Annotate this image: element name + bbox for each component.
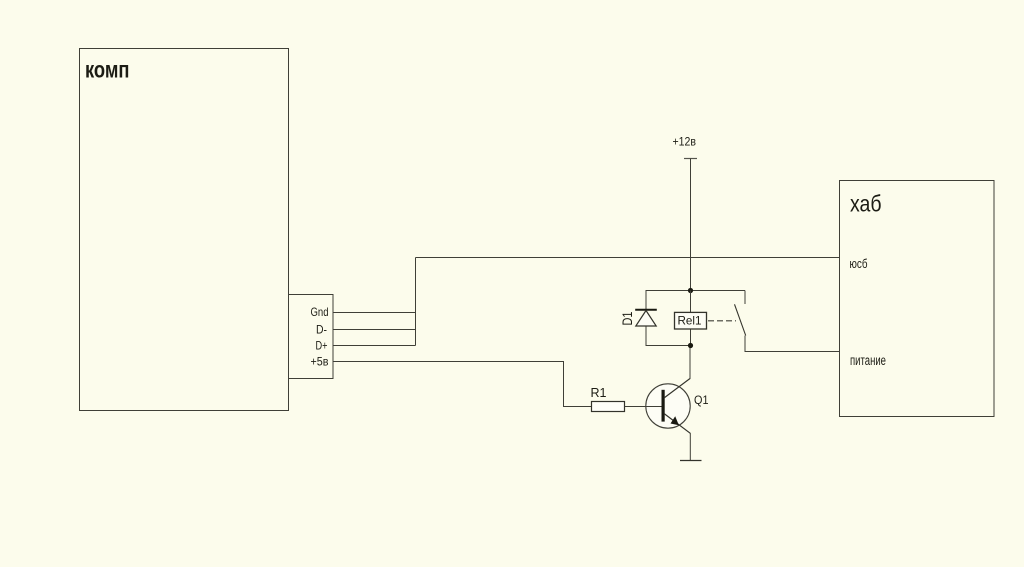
ground (680, 460, 702, 462)
svg-text:R1: R1 (591, 386, 607, 400)
+12v supply terminal (673, 135, 698, 159)
wire relay coil (node A to node B through Rel1) (690, 291, 692, 346)
node B junction (688, 343, 693, 348)
switch contact top terminal (744, 291, 746, 305)
svg-text:питание: питание (850, 353, 886, 368)
svg-text:хаб: хаб (850, 191, 882, 217)
wire node A rail (diode top to switch top) (646, 290, 746, 292)
block HUB (840, 181, 995, 417)
svg-text:D1: D1 (620, 312, 635, 326)
resistor R1 (591, 386, 625, 412)
wire emitter to ground (689, 433, 691, 461)
USB connector pin block (289, 295, 334, 379)
wire collector to node B (689, 346, 691, 380)
switch bottom terminal (744, 336, 746, 352)
switch blade (735, 304, 746, 335)
svg-text:D+: D+ (316, 339, 328, 353)
svg-text:Gnd: Gnd (311, 305, 329, 319)
block KOMP (computer) (80, 49, 289, 411)
svg-text:юсб: юсб (850, 256, 868, 271)
wire data bus vertical (415, 258, 417, 346)
diode D1 (620, 291, 657, 346)
transistor Q1 (625, 379, 709, 434)
wire +12v to node A (690, 159, 692, 291)
wire +5v pin to resistor R1 (333, 362, 592, 407)
wire data bus to hub usb pin (416, 257, 841, 259)
svg-text:Q1: Q1 (694, 393, 709, 407)
relay actuation dashed link (708, 320, 736, 322)
svg-text:+12в: +12в (673, 135, 697, 149)
wire D- pin to data bus (333, 329, 416, 331)
wire D+ pin to data bus (333, 345, 416, 347)
wire Gnd pin to data bus (333, 312, 416, 314)
svg-text:комп: комп (85, 57, 130, 83)
relay coil box Rel1 (675, 312, 707, 329)
svg-text:D-: D- (316, 323, 327, 337)
svg-text:+5в: +5в (311, 355, 329, 369)
wire switch to hub power pin (745, 351, 840, 353)
svg-text:Rel1: Rel1 (678, 313, 702, 327)
node A junction (688, 288, 693, 293)
wire node B rail (diode bottom to node B) (646, 345, 691, 347)
